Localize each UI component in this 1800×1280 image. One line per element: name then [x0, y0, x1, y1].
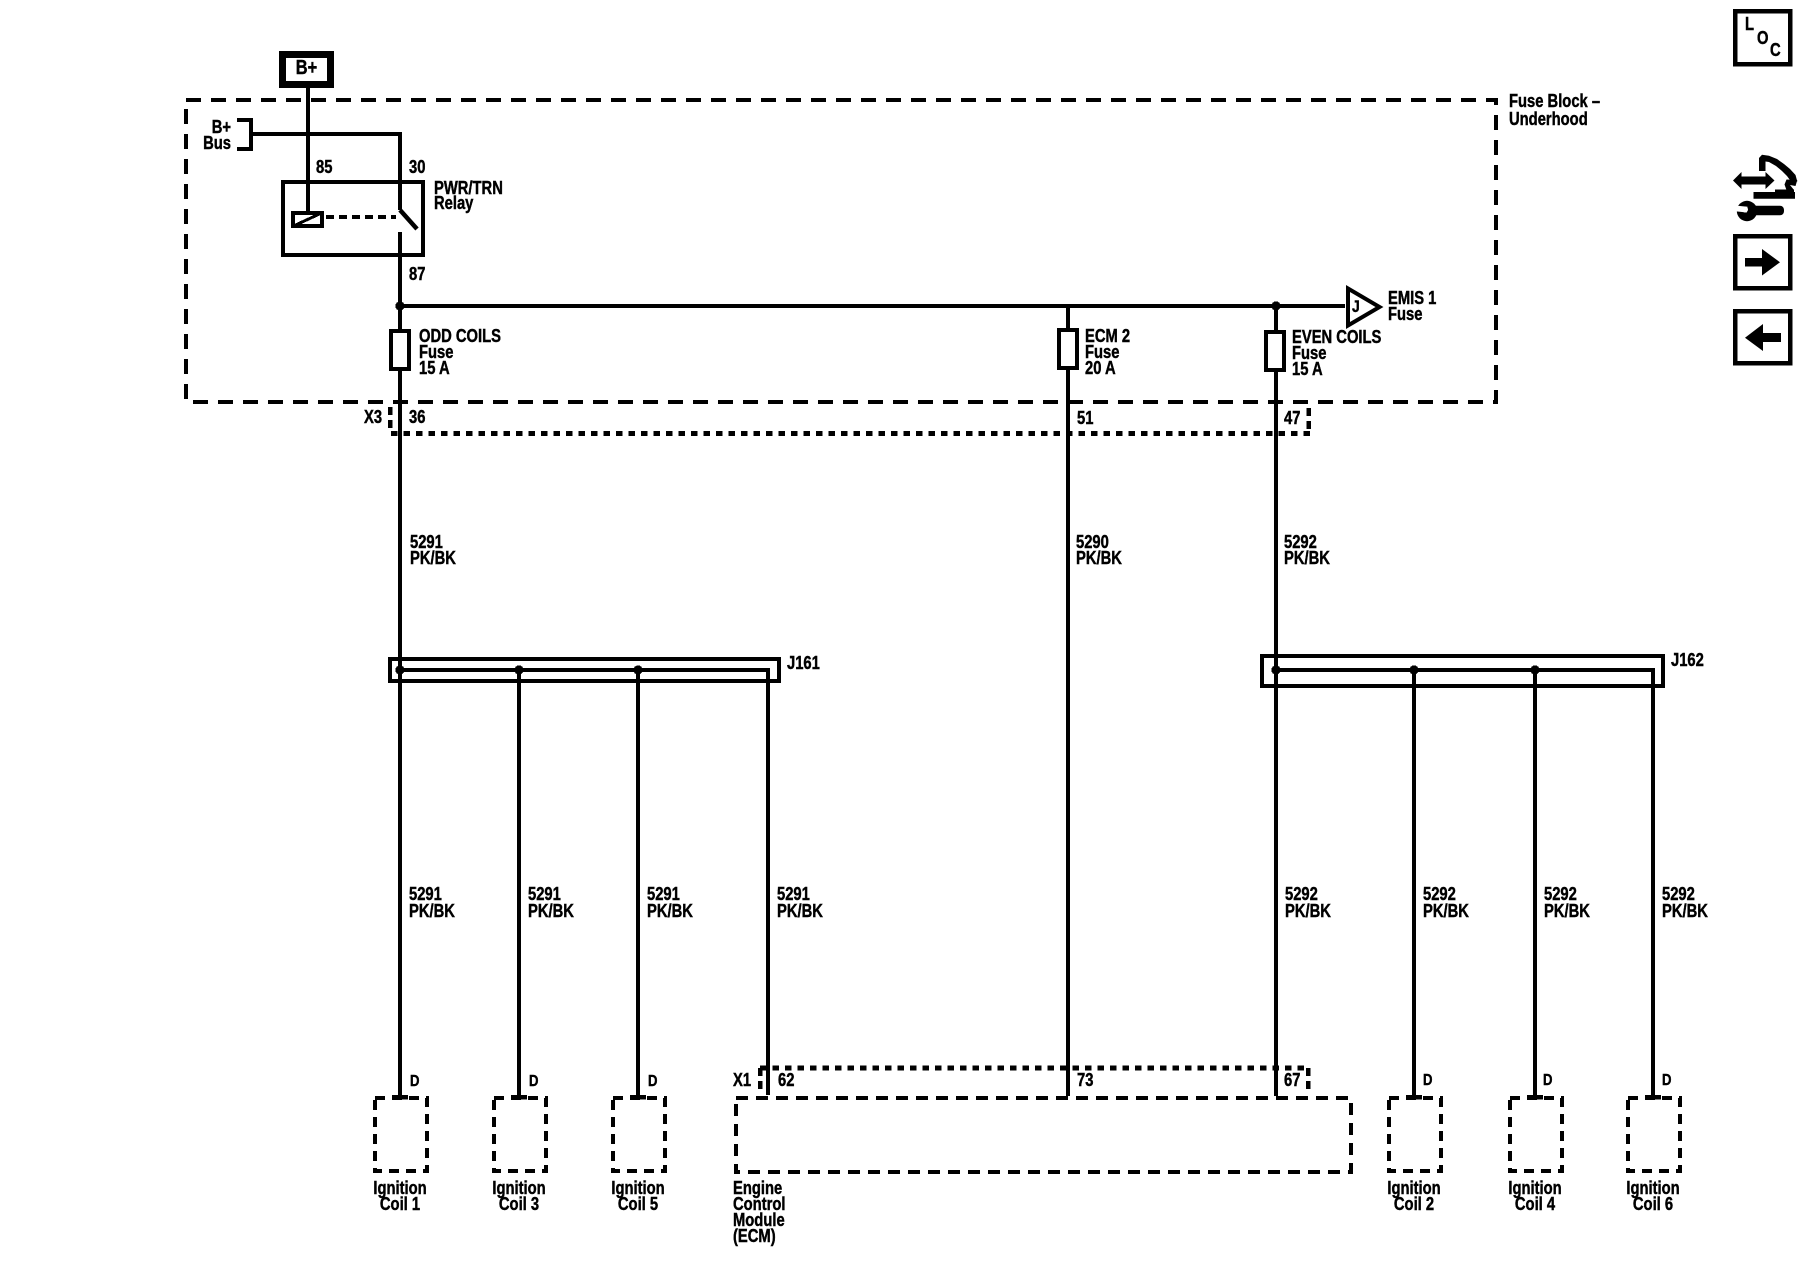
- label wire 5290 PK/BK upper: [1076, 534, 1122, 566]
- icon service double arrow: [1733, 172, 1775, 189]
- relay coil-switch dashed link: [326, 215, 396, 219]
- junction node J162 coil2: [1409, 665, 1418, 674]
- relay K1 PWR/TRN box: [283, 182, 423, 255]
- label pin 67: [1284, 1072, 1300, 1088]
- label pin 87: [409, 266, 425, 282]
- connector X3 pin 36 marker: [388, 407, 393, 429]
- label wire 5292 PK/BK upper: [1284, 534, 1330, 566]
- icon forward arrow box: [1735, 236, 1790, 288]
- label wire 5291 PK/BK ecm: [777, 886, 823, 919]
- label wire 5291 PK/BK coil1: [409, 886, 455, 919]
- label pin D coil6: [1662, 1073, 1671, 1089]
- junction node J162 in: [1271, 665, 1280, 674]
- splice pack J162 internal bus: [1276, 670, 1653, 1095]
- terminal bar ignition coil 3 pin D: [511, 1095, 527, 1100]
- label EMIS 1 Fuse: [1388, 290, 1436, 323]
- wire J162 to ignition coil 2: [1412, 670, 1416, 1095]
- icon service arrow outline: [1754, 155, 1798, 199]
- junction node J162 coil4: [1530, 665, 1539, 674]
- label Ignition Coil 5: [589, 1180, 687, 1213]
- label Ignition Coil 2: [1365, 1180, 1463, 1213]
- terminal bar ignition coil 2 pin D: [1406, 1095, 1422, 1100]
- fuse EMIS 1 triangle connector J: [1348, 289, 1380, 326]
- engine control module ECM dashed box: [736, 1098, 1351, 1172]
- relay switch pin30 stub: [398, 180, 402, 210]
- connector X1 dotted boundary line: [760, 1066, 1310, 1071]
- label pin 30: [409, 159, 425, 175]
- terminal bar ignition coil 4 pin D: [1527, 1095, 1543, 1100]
- label pin 36: [409, 409, 425, 425]
- label Ignition Coil 4: [1486, 1180, 1584, 1213]
- wire EVEN COILS branch x=1276 down through J162 to ECM pin 67: [1274, 306, 1278, 1096]
- wire ODD COILS branch x=400 down through J161 to coil 1: [398, 306, 402, 1095]
- wire J162 to ignition coil 4: [1533, 670, 1537, 1095]
- wire J161 to ignition coil 3: [517, 670, 521, 1095]
- label wire 5291 PK/BK coil5: [647, 886, 693, 919]
- ignition coil 5 dashed box: [613, 1098, 665, 1171]
- label pin 85: [316, 159, 332, 175]
- label Ignition Coil 1: [351, 1180, 449, 1213]
- label wire 5292 PK/BK coil2: [1423, 886, 1469, 919]
- wire B+ Bus to relay pin 30: [251, 134, 400, 180]
- fuse ODD COILS 15A: [391, 331, 409, 369]
- label J162: [1671, 652, 1704, 668]
- label pin 73: [1077, 1072, 1093, 1088]
- label pin 47: [1284, 410, 1300, 426]
- label pin D coil3: [529, 1074, 538, 1090]
- label Fuse Block Underhood: [1509, 93, 1600, 128]
- power symbol B+: [283, 55, 331, 85]
- label wire 5291 PK/BK coil3: [528, 886, 574, 919]
- wire relay pin 87 down to bus: [398, 232, 402, 306]
- junction node J161 coil3: [514, 665, 523, 674]
- ignition coil 4 dashed box: [1510, 1098, 1562, 1171]
- ignition coil 6 dashed box: [1628, 1098, 1680, 1171]
- relay switch blade: [400, 210, 417, 229]
- junction node J161 coil1: [395, 665, 404, 674]
- fuse EVEN COILS 15A: [1266, 332, 1284, 370]
- wire J161 to ignition coil 5: [636, 670, 640, 1095]
- terminal bar ignition coil 6 pin D: [1645, 1095, 1661, 1100]
- icon back arrow box: [1735, 311, 1790, 363]
- label pin 51: [1077, 410, 1093, 426]
- label connector X3: [364, 409, 382, 425]
- label icon O: [1757, 30, 1768, 46]
- connector X3 dotted boundary line: [391, 431, 1311, 436]
- splice pack J161 box: [390, 659, 779, 681]
- splice pack J161 internal bus: [400, 670, 768, 1095]
- label J161: [787, 655, 820, 671]
- label ODD COILS Fuse 15 A: [419, 328, 501, 376]
- wire main feed bus from pin 87 to EMIS 1: [400, 304, 1345, 308]
- label Engine Control Module ECM: [733, 1180, 785, 1244]
- label J in EMIS triangle: [1352, 299, 1360, 315]
- label wire 5292 PK/BK coil4: [1544, 886, 1590, 919]
- label wire 5291 PK/BK upper: [410, 534, 456, 566]
- ignition coil 2 dashed box: [1389, 1098, 1441, 1171]
- label wire 5292 PK/BK ecm: [1285, 886, 1331, 919]
- label Ignition Coil 6: [1604, 1180, 1702, 1213]
- label pin 62: [778, 1072, 794, 1088]
- label EVEN COILS Fuse 15 A: [1292, 329, 1381, 377]
- wire B+ to relay pin 85: [306, 88, 310, 211]
- wire ECM 2 branch x=1068 down to ECM pin 73: [1066, 306, 1070, 1096]
- icon LOC box: [1735, 11, 1790, 64]
- label B+: [291, 60, 321, 76]
- relay coil: [293, 213, 322, 226]
- label ECM 2 Fuse 20 A: [1085, 328, 1130, 376]
- terminal bar ignition coil 1 pin D: [392, 1095, 408, 1100]
- connector X1 pin 67 marker: [1306, 1068, 1311, 1092]
- fuse block underhood dashed box: [186, 100, 1496, 402]
- label icon L: [1745, 16, 1754, 32]
- node B+ Bus bracket: [237, 120, 251, 149]
- connector X3 pin 47 marker: [1306, 408, 1311, 430]
- terminal bar ignition coil 5 pin D: [630, 1095, 646, 1100]
- connector X1 pin 62 marker: [758, 1068, 763, 1090]
- label Ignition Coil 3: [470, 1180, 568, 1213]
- splice pack J162 box: [1262, 656, 1663, 686]
- label icon C: [1770, 42, 1781, 58]
- junction node at pin 87 bus: [395, 301, 404, 310]
- label PWR/TRN Relay: [434, 181, 503, 212]
- icon service wrench: [1735, 201, 1784, 221]
- junction node J161 coil5: [633, 665, 642, 674]
- label B+ Bus: [198, 119, 231, 151]
- ignition coil 3 dashed box: [494, 1098, 546, 1171]
- ignition coil 1 dashed box: [375, 1098, 427, 1171]
- label pin D coil4: [1543, 1073, 1552, 1089]
- label wire 5292 PK/BK coil6: [1662, 886, 1708, 919]
- fuse ECM 2 20A: [1059, 330, 1077, 368]
- label pin D coil2: [1423, 1073, 1432, 1089]
- label pin D coil1: [410, 1074, 419, 1090]
- label pin D coil5: [648, 1074, 657, 1090]
- label connector X1: [733, 1072, 751, 1088]
- junction node at EVEN COILS tap: [1271, 301, 1280, 310]
